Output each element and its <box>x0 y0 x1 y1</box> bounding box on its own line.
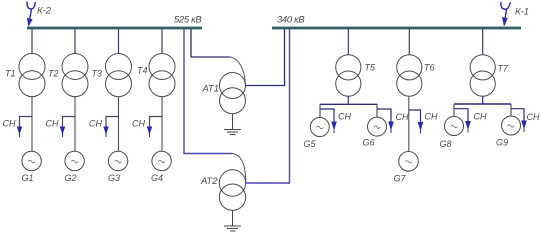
AT1 circles <box>220 73 246 99</box>
wire T2 to G2 <box>74 96 76 151</box>
svg-text:К-1: К-1 <box>515 7 529 18</box>
svg-text:К-2: К-2 <box>37 6 52 17</box>
svg-text:СН: СН <box>474 112 487 122</box>
short-circuit marker K-1 <box>501 2 510 27</box>
AT2 winding arc <box>232 154 246 184</box>
wire bus to T1 <box>31 29 33 54</box>
G9 CH branch <box>511 109 524 121</box>
arrow to auxiliaries <box>147 127 153 135</box>
svg-text:СН: СН <box>425 112 438 122</box>
svg-text:Т1: Т1 <box>5 69 16 79</box>
wire bus to T6 <box>408 29 410 55</box>
svg-text:СН: СН <box>132 119 145 129</box>
svg-text:СН: СН <box>527 112 540 122</box>
generator G3 <box>108 151 127 170</box>
wire T4 to G4 <box>161 96 163 151</box>
wire bus to T3 <box>118 29 120 54</box>
svg-text:СН: СН <box>338 112 351 122</box>
wire bar to G9 <box>510 104 512 116</box>
arrow to auxiliaries <box>60 127 66 135</box>
wire bar to G5 <box>319 104 321 117</box>
T3 circles <box>106 54 132 80</box>
autotransformer AT1 <box>191 29 285 135</box>
generator G2 <box>65 151 84 170</box>
svg-text:АТ2: АТ2 <box>200 176 218 187</box>
generator G1 <box>22 151 41 170</box>
svg-text:СН: СН <box>3 119 16 129</box>
svg-text:СН: СН <box>396 112 409 122</box>
generator G6 <box>368 117 387 136</box>
arrow to auxiliaries <box>103 127 109 135</box>
T5 circles <box>336 55 361 80</box>
arrow (G5 aux) <box>331 122 337 131</box>
svg-text:G6: G6 <box>363 138 375 148</box>
transformer T6 <box>394 29 438 184</box>
wire 525 bus to AT1 <box>191 29 230 57</box>
stub T7 to split bar <box>482 96 484 104</box>
svg-text:СН: СН <box>89 119 102 129</box>
svg-text:G8: G8 <box>440 139 452 149</box>
wire bus to T4 <box>161 29 163 54</box>
svg-text:G9: G9 <box>496 138 508 148</box>
split bar <box>454 103 511 105</box>
generator G8 <box>445 117 464 136</box>
generator G5 <box>310 118 329 137</box>
CH branch wire <box>20 117 33 136</box>
svg-text:G1: G1 <box>22 173 34 183</box>
wire AT1 to 340 bus <box>245 29 284 86</box>
wire bus to T7 <box>482 29 484 55</box>
G8 CH branch <box>454 109 468 122</box>
AT1 winding arc <box>230 57 246 86</box>
svg-text:СН: СН <box>46 119 59 129</box>
T6 circles <box>397 55 422 80</box>
arrow (G9 aux) <box>521 121 527 130</box>
ground AT2 <box>224 210 241 231</box>
svg-text:АТ1: АТ1 <box>202 84 219 95</box>
CH branch wire <box>63 117 76 136</box>
T4 circles <box>149 54 175 80</box>
generator G9 <box>502 116 521 135</box>
wire T1 to G1 <box>31 96 33 151</box>
T6 CH branch <box>409 110 421 123</box>
svg-text:Т5: Т5 <box>365 63 376 73</box>
T7 circles <box>470 55 495 80</box>
ground AT1 <box>224 113 241 134</box>
wire AT2 to 340 bus <box>246 29 290 183</box>
svg-text:G5: G5 <box>304 139 317 149</box>
autotransformer AT2 <box>184 29 290 231</box>
svg-text:Т4: Т4 <box>137 66 148 76</box>
CH branch wire <box>150 117 163 136</box>
generator G7 <box>399 152 419 172</box>
T2 circles <box>62 54 88 80</box>
wire T6 to G7 <box>408 96 410 151</box>
transformer T7 <box>440 29 540 149</box>
short-circuit marker K-2 <box>27 2 35 27</box>
split bar <box>320 103 377 105</box>
arrow (T6 aux) <box>418 122 424 131</box>
arrow (G6 aux) <box>388 122 394 131</box>
svg-text:Т2: Т2 <box>48 69 59 79</box>
wire T3 to G3 <box>118 96 120 151</box>
transformer T2 <box>46 29 89 183</box>
svg-text:G7: G7 <box>394 174 407 184</box>
transformer T1 <box>3 29 46 183</box>
svg-text:Т7: Т7 <box>498 64 509 74</box>
svg-text:G4: G4 <box>151 173 163 183</box>
generator G4 <box>152 151 171 170</box>
svg-text:G3: G3 <box>108 173 120 183</box>
G6 CH branch <box>377 109 391 122</box>
svg-text:G2: G2 <box>65 173 77 183</box>
wire bar to G6 <box>376 104 378 117</box>
wire bus to T5 <box>347 29 349 55</box>
stub T5 to split bar <box>347 96 349 104</box>
wire bus to T2 <box>74 29 76 54</box>
T1 circles <box>19 54 45 80</box>
svg-text:Т6: Т6 <box>424 63 435 73</box>
bus 525 kV <box>27 27 202 30</box>
G5 CH branch <box>320 109 334 122</box>
svg-text:340 кВ: 340 кВ <box>277 15 305 26</box>
svg-text:525 кВ: 525 кВ <box>174 15 202 26</box>
arrow to auxiliaries <box>17 127 23 135</box>
transformer T4 <box>132 29 175 183</box>
wire 525 bus to AT2 <box>184 29 232 154</box>
bus 340 kV <box>272 27 521 30</box>
transformer T5 <box>304 29 409 149</box>
arrow (G8 aux) <box>465 121 471 130</box>
CH branch wire <box>106 117 119 136</box>
wire bar to G8 <box>453 104 455 117</box>
transformer T3 <box>89 29 132 183</box>
AT2 circles <box>219 170 245 196</box>
svg-text:Т3: Т3 <box>92 69 103 79</box>
